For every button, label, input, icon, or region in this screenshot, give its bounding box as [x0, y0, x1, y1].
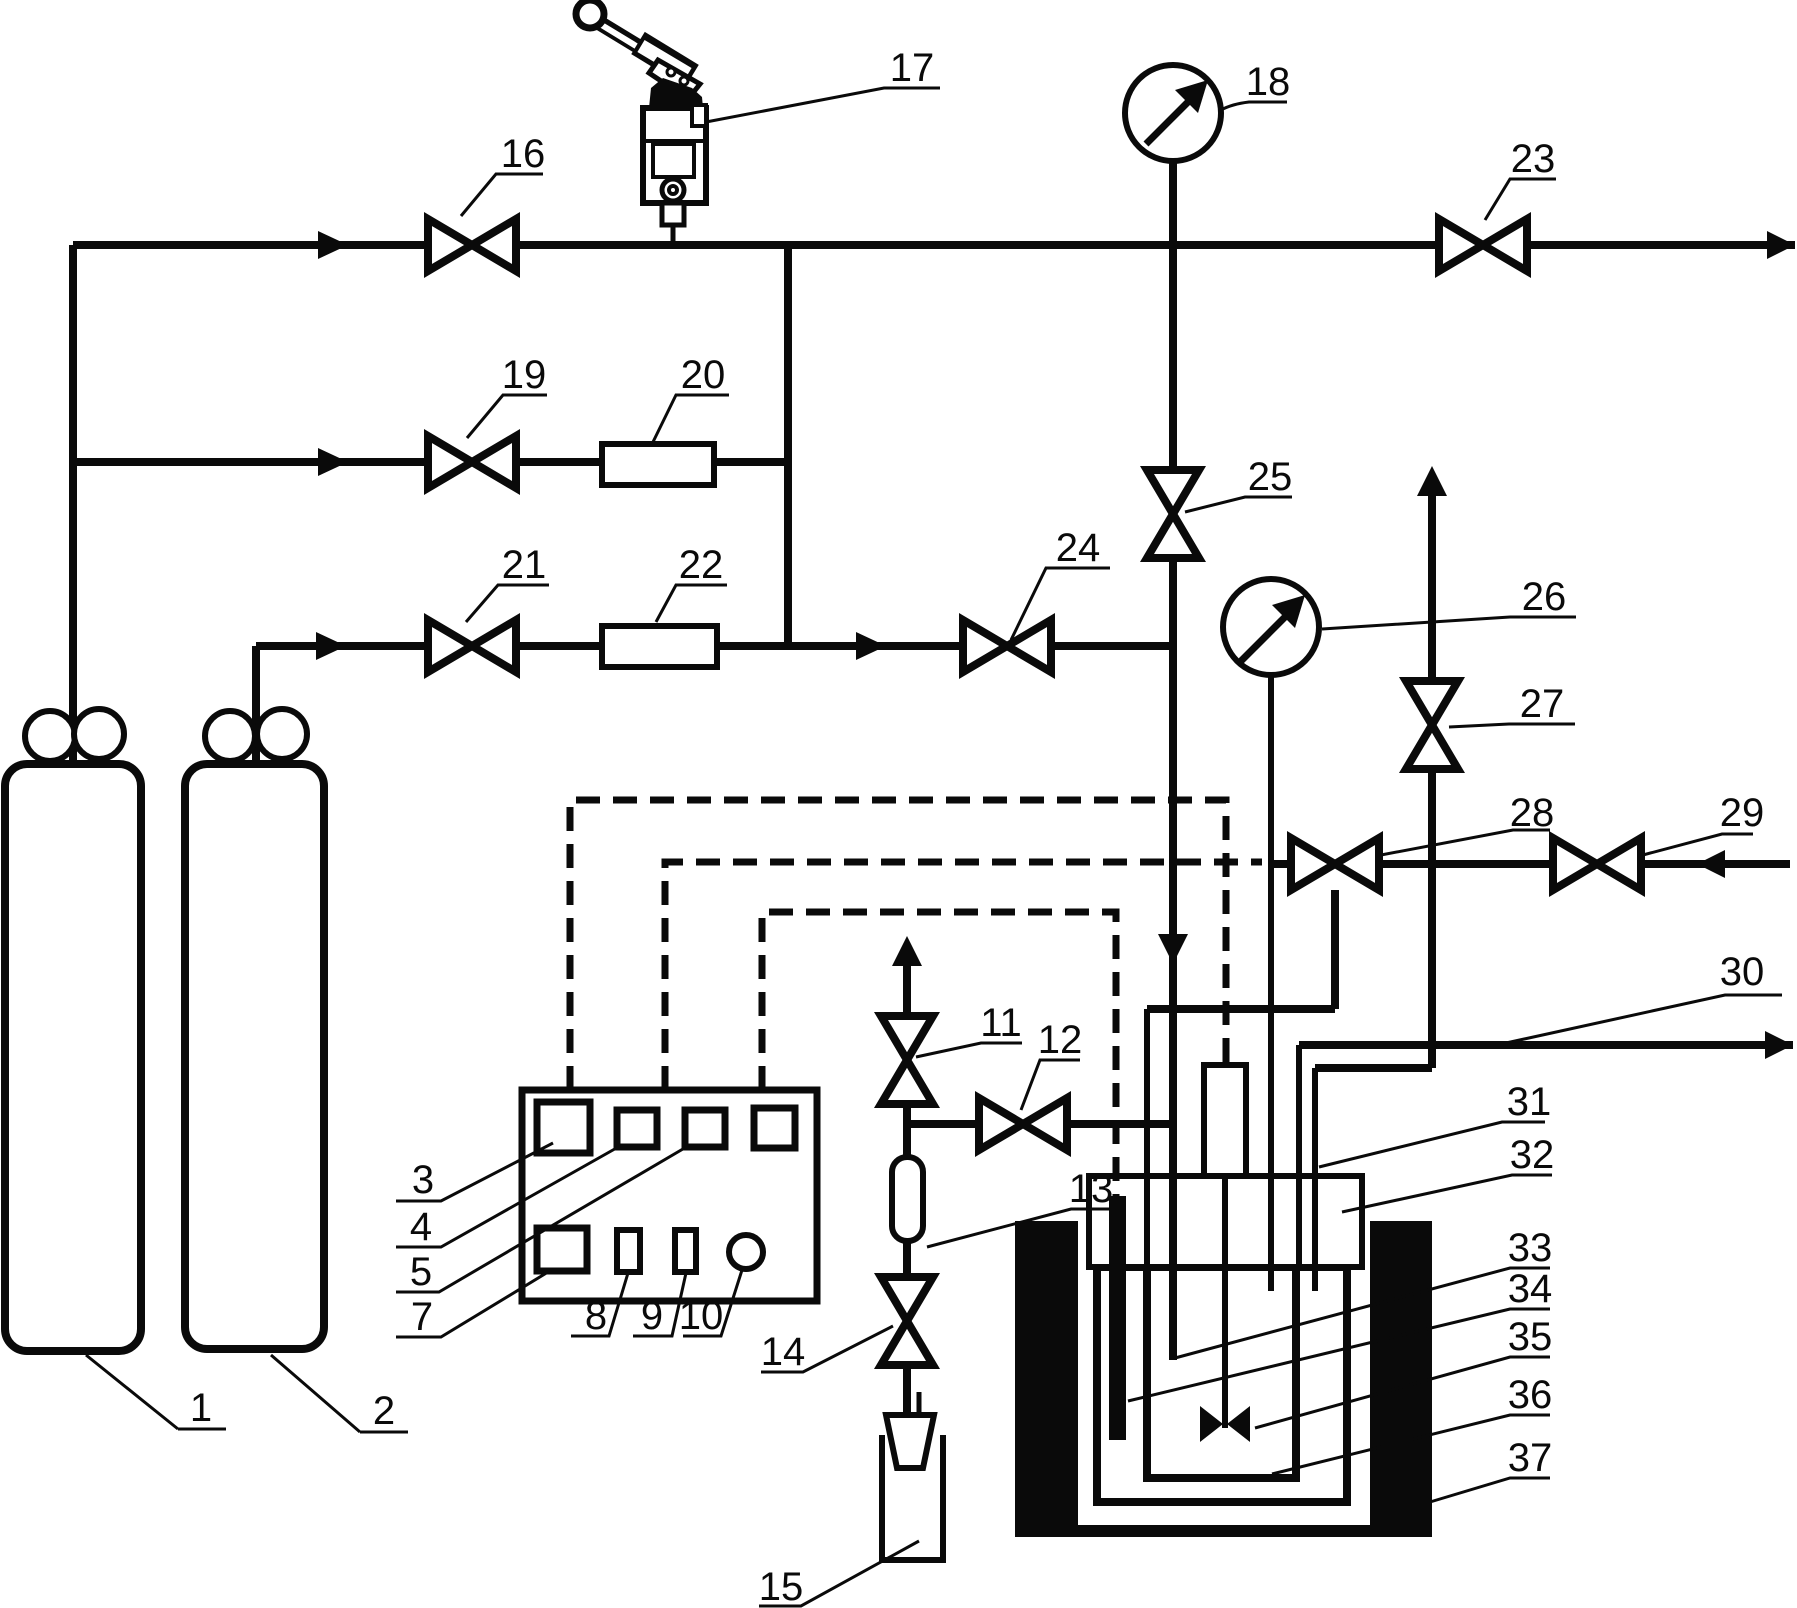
svg-text:32: 32: [1510, 1133, 1555, 1177]
svg-text:11: 11: [980, 1001, 1022, 1045]
svg-text:30: 30: [1720, 950, 1765, 994]
svg-text:14: 14: [761, 1330, 806, 1374]
svg-text:16: 16: [501, 132, 546, 176]
svg-text:37: 37: [1508, 1436, 1553, 1480]
svg-text:20: 20: [681, 353, 726, 397]
svg-text:13: 13: [1069, 1167, 1114, 1211]
svg-text:27: 27: [1520, 682, 1565, 726]
svg-text:8: 8: [585, 1294, 607, 1338]
svg-text:23: 23: [1511, 137, 1556, 181]
svg-text:9: 9: [641, 1294, 663, 1338]
svg-text:18: 18: [1246, 60, 1291, 104]
svg-text:12: 12: [1038, 1018, 1083, 1062]
svg-text:5: 5: [410, 1250, 432, 1294]
svg-text:4: 4: [410, 1205, 432, 1249]
svg-text:2: 2: [373, 1389, 395, 1433]
svg-text:19: 19: [502, 353, 547, 397]
svg-text:35: 35: [1508, 1315, 1553, 1359]
svg-text:36: 36: [1508, 1373, 1553, 1417]
svg-text:1: 1: [190, 1386, 212, 1430]
svg-text:29: 29: [1720, 791, 1765, 835]
svg-text:26: 26: [1522, 575, 1567, 619]
svg-text:24: 24: [1056, 526, 1101, 570]
svg-text:33: 33: [1508, 1226, 1553, 1270]
svg-text:3: 3: [412, 1158, 434, 1202]
svg-text:25: 25: [1248, 455, 1293, 499]
svg-text:17: 17: [890, 46, 935, 90]
svg-text:21: 21: [502, 543, 547, 587]
svg-text:34: 34: [1508, 1267, 1553, 1311]
svg-text:7: 7: [411, 1295, 433, 1339]
svg-text:15: 15: [759, 1565, 804, 1608]
svg-text:10: 10: [679, 1294, 724, 1338]
svg-text:28: 28: [1510, 791, 1555, 835]
svg-text:31: 31: [1507, 1080, 1552, 1124]
svg-text:22: 22: [679, 543, 724, 587]
